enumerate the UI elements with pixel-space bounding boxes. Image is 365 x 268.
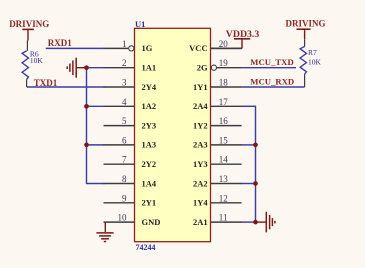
svg-text:1Y2: 1Y2 <box>193 120 208 130</box>
svg-text:10K: 10K <box>30 56 44 65</box>
svg-text:74244: 74244 <box>136 243 156 252</box>
svg-text:VCC: VCC <box>189 43 207 53</box>
svg-text:2A2: 2A2 <box>193 178 208 188</box>
svg-text:1Y1: 1Y1 <box>193 82 208 92</box>
svg-text:11: 11 <box>219 213 228 223</box>
svg-text:2Y4: 2Y4 <box>142 82 157 92</box>
svg-text:2A3: 2A3 <box>193 140 208 150</box>
svg-text:4: 4 <box>122 97 127 107</box>
svg-text:10K: 10K <box>308 57 322 66</box>
svg-text:U1: U1 <box>135 19 145 29</box>
svg-text:2Y2: 2Y2 <box>142 159 157 169</box>
svg-text:2Y3: 2Y3 <box>142 120 157 130</box>
svg-text:10: 10 <box>118 213 128 223</box>
svg-text:14: 14 <box>219 155 229 165</box>
svg-text:5: 5 <box>122 116 127 126</box>
svg-text:20: 20 <box>219 39 229 49</box>
svg-text:1A2: 1A2 <box>142 101 157 111</box>
svg-text:13: 13 <box>219 174 229 184</box>
svg-text:RXD1: RXD1 <box>48 38 72 48</box>
svg-text:9: 9 <box>122 193 127 203</box>
svg-text:2A1: 2A1 <box>193 217 208 227</box>
svg-text:19: 19 <box>219 58 229 68</box>
svg-text:TXD1: TXD1 <box>34 78 58 88</box>
svg-text:3: 3 <box>122 78 127 88</box>
svg-text:MCU_TXD: MCU_TXD <box>250 57 293 67</box>
svg-text:VDD3.3: VDD3.3 <box>226 29 260 40</box>
svg-text:R7: R7 <box>308 48 317 57</box>
svg-text:8: 8 <box>122 174 127 184</box>
svg-text:1A1: 1A1 <box>142 63 157 73</box>
svg-text:2Y1: 2Y1 <box>142 198 157 208</box>
svg-text:16: 16 <box>219 116 229 126</box>
svg-text:1G: 1G <box>142 43 153 53</box>
svg-text:1Y3: 1Y3 <box>193 159 208 169</box>
svg-text:DRIVING: DRIVING <box>286 19 326 29</box>
svg-text:1A4: 1A4 <box>142 178 157 188</box>
svg-text:2A4: 2A4 <box>193 101 208 111</box>
svg-text:DRIVING: DRIVING <box>9 19 49 29</box>
svg-text:17: 17 <box>219 97 229 107</box>
svg-text:MCU_RXD: MCU_RXD <box>250 76 294 86</box>
svg-text:6: 6 <box>122 135 127 145</box>
svg-text:2G: 2G <box>197 63 208 73</box>
svg-text:18: 18 <box>219 78 229 88</box>
svg-text:GND: GND <box>142 217 161 227</box>
svg-text:15: 15 <box>219 135 229 145</box>
svg-text:12: 12 <box>219 193 228 203</box>
svg-text:1: 1 <box>122 39 127 49</box>
svg-text:2: 2 <box>122 58 127 68</box>
svg-text:1Y4: 1Y4 <box>193 198 208 208</box>
svg-text:7: 7 <box>122 155 127 165</box>
svg-text:1A3: 1A3 <box>142 140 157 150</box>
